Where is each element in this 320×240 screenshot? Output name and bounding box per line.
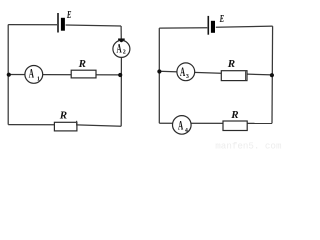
node: left junction of middle branch: [7, 73, 11, 77]
ammeter A2 circle: [113, 40, 130, 57]
svg-text:R: R: [59, 110, 67, 122]
svg-text:1: 1: [37, 77, 40, 83]
svg-text:3: 3: [186, 74, 189, 80]
svg-text:R: R: [78, 58, 86, 70]
battery E (left circuit) short thick plate: [61, 18, 65, 31]
ammeter A3 circle: [177, 63, 195, 81]
wire: left circuit right edge below ammeter A2: [120, 57, 122, 126]
svg-text:A: A: [180, 65, 186, 79]
node: right junction of middle branch: [118, 73, 122, 77]
wire: right circuit bottom side: [159, 122, 272, 124]
svg-text:A: A: [117, 42, 123, 56]
wire: right circuit left edge: [158, 28, 160, 123]
wire: left circuit bottom side: [8, 125, 121, 127]
battery E (right circuit) long plate: [207, 16, 209, 35]
svg-text:E: E: [219, 14, 224, 25]
resistor R (left circuit bottom): [54, 122, 77, 131]
battery E (left circuit) long plate: [57, 13, 59, 33]
wire: right circuit top-left segment to battery: [159, 27, 207, 29]
resistor R (right circuit bottom): [223, 121, 247, 131]
node: left junction of right middle branch: [157, 69, 161, 73]
svg-text:R: R: [230, 109, 238, 121]
svg-text:2: 2: [123, 49, 126, 55]
wire: left circuit right edge above ammeter A2: [120, 26, 122, 41]
wire: left circuit top-left segment to battery: [8, 24, 57, 26]
svg-text:R: R: [227, 58, 235, 70]
junction blob at top of A2: [118, 38, 125, 40]
wire: right circuit right edge: [271, 26, 274, 123]
wire: right circuit middle branch: [159, 71, 272, 75]
wire: right circuit top-right segment from battery to corner: [216, 26, 273, 27]
node: right junction of right middle branch: [270, 73, 274, 77]
resistor R (right circuit middle branch): [221, 71, 247, 81]
wire: left circuit middle branch: [8, 74, 121, 76]
svg-text:E: E: [66, 10, 71, 21]
ammeter A1 circle: [25, 66, 43, 84]
inner edge artifact of right middle resistor: [245, 71, 247, 80]
svg-text:A: A: [178, 119, 184, 133]
wire: left circuit top-right segment from battery to corner: [66, 25, 122, 26]
battery E (right circuit) short thick plate: [211, 21, 215, 33]
wire: left circuit left edge: [7, 25, 9, 125]
wire stub artifact at bottom resistor right edge: [76, 121, 78, 126]
ammeter A4 circle: [173, 116, 192, 135]
resistor R (left circuit middle branch): [71, 70, 96, 78]
svg-text:manfen5. com: manfen5. com: [215, 141, 282, 152]
svg-text:A: A: [29, 66, 35, 80]
svg-text:4: 4: [185, 128, 188, 134]
